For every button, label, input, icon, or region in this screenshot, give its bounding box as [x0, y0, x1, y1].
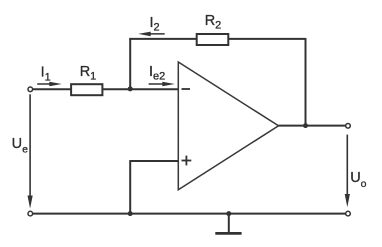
svg-text:R1: R1 [80, 64, 97, 83]
current arrow I1 [37, 82, 62, 87]
current arrow I2 [138, 32, 165, 37]
svg-text:I1: I1 [41, 65, 51, 84]
node: junction at output [303, 123, 308, 128]
node: junction non-inverting to rail [128, 211, 133, 216]
resistor R2 [197, 34, 229, 45]
op-amp non-inverting pin plus sign [182, 156, 192, 166]
wire: output to terminal [279, 125, 346, 127]
wire: feedback vertical right segment [305, 38, 307, 126]
svg-text:Ue: Ue [12, 136, 28, 155]
resistor R1 [71, 84, 102, 95]
wire: R1 to inverting input [103, 88, 178, 90]
wire: feedback vertical left segment [129, 39, 131, 89]
node: junction at inverting input [128, 86, 133, 91]
node: junction ground to rail [226, 211, 231, 216]
current arrow Ie2 [149, 82, 175, 87]
wire: bottom rail [33, 213, 346, 215]
svg-text:R2: R2 [205, 13, 222, 32]
ground bar [215, 232, 241, 235]
op-amp U1 triangle [178, 62, 278, 190]
terminal: output bottom [346, 211, 351, 216]
op-amp inverting pin minus sign [182, 88, 191, 90]
ground stub [228, 214, 230, 233]
wire: R2 to right corner [228, 38, 306, 40]
svg-text:Uo: Uo [350, 170, 366, 190]
svg-text:Ie2: Ie2 [149, 64, 165, 83]
wire: non-inverting input horizontal [130, 160, 178, 162]
terminal: output top [346, 124, 351, 129]
voltage arrow Uo [345, 135, 350, 208]
voltage arrow Ue [28, 94, 33, 208]
terminal: input top [28, 87, 33, 92]
wire: non-inverting vertical to ground rail [129, 160, 131, 214]
wire: input from terminal to R1 [33, 88, 71, 90]
wire: top feedback to R2 [129, 38, 197, 40]
svg-text:I2: I2 [150, 15, 160, 34]
terminal: input bottom [28, 211, 33, 216]
